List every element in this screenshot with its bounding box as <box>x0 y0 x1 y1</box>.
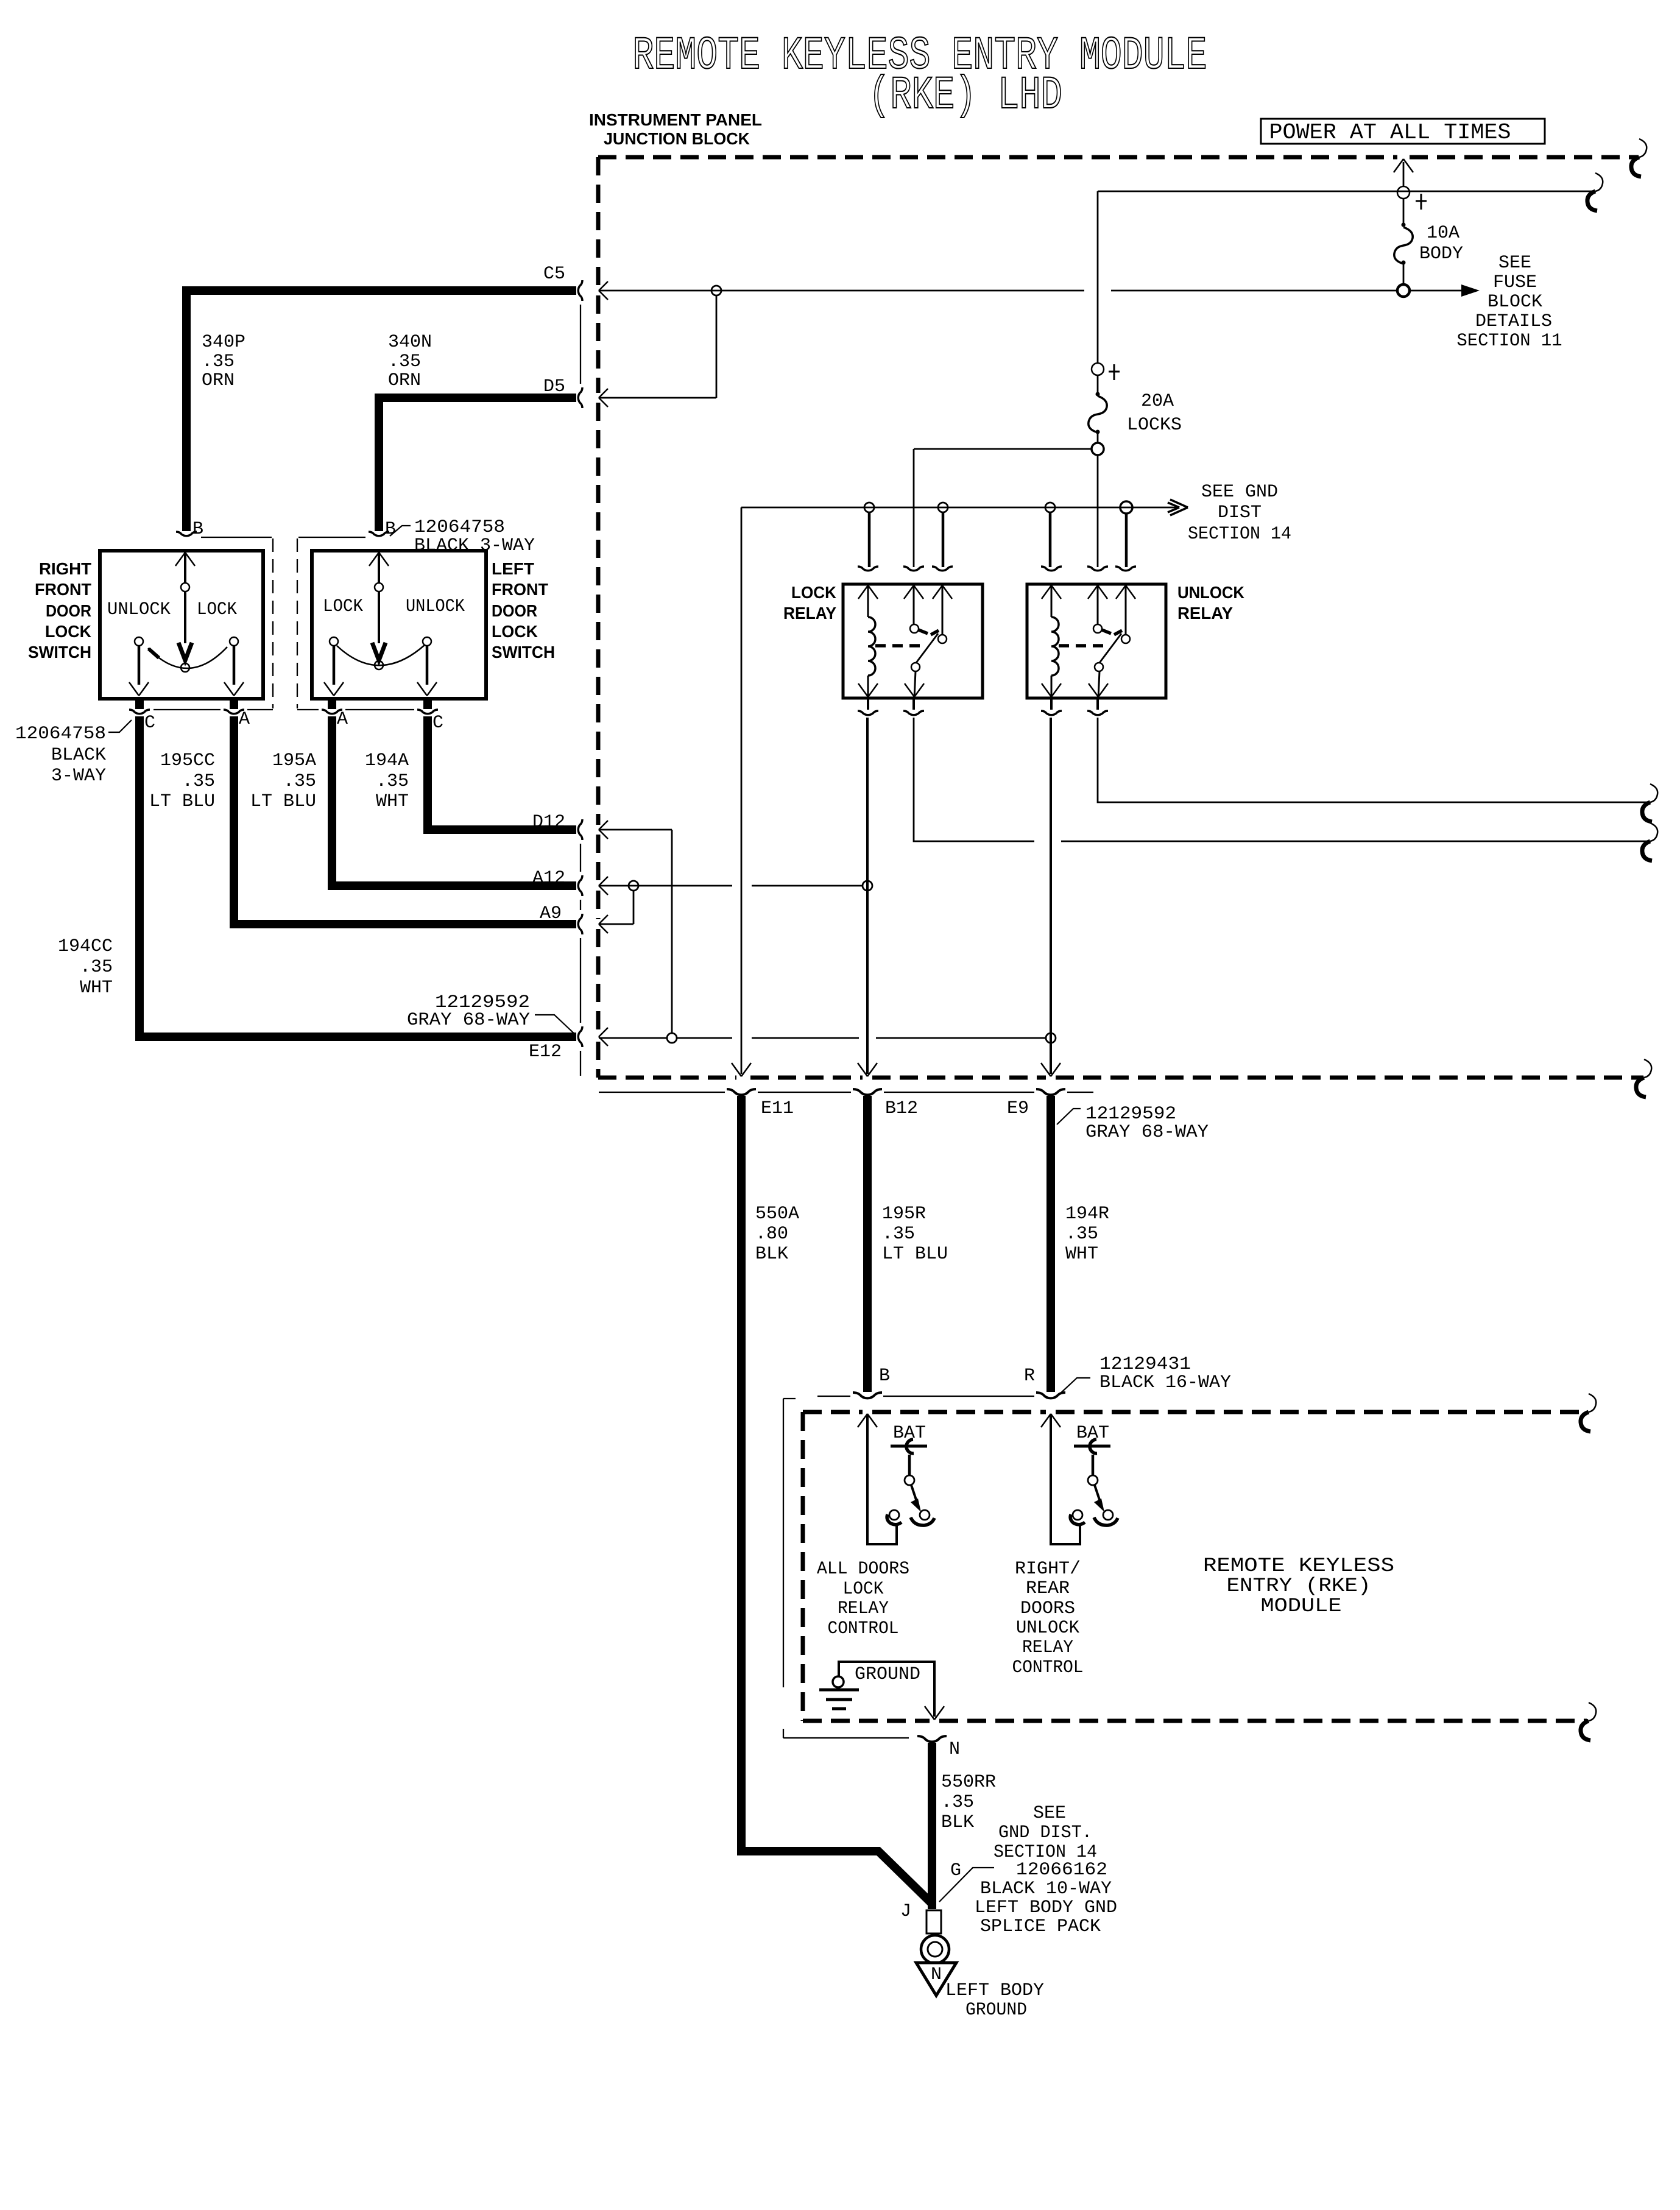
wire 550A .80 BLK <box>737 1096 746 1851</box>
relay socket cups (lock) <box>858 567 878 571</box>
label: INSTRUMENT PANEL JUNCTION BLOCK <box>589 110 762 148</box>
unlock relay internals <box>1051 584 1126 698</box>
svg-text:SPLICE PACK: SPLICE PACK <box>980 1916 1101 1937</box>
svg-text:B: B <box>879 1366 890 1386</box>
svg-text:E12: E12 <box>529 1042 562 1062</box>
svg-text:UNLOCK: UNLOCK <box>406 596 465 617</box>
relay K1 LOCK RELAY box <box>843 584 983 698</box>
68-way connector face lines (left border) <box>580 305 581 1076</box>
svg-text:SEE: SEE <box>1498 253 1531 274</box>
label: 12129592 GRAY 68-WAY (E12 connector) <box>407 992 575 1034</box>
svg-text:SWITCH: SWITCH <box>492 643 555 662</box>
svg-text:CONTROL: CONTROL <box>1012 1657 1084 1678</box>
svg-text:195A: 195A <box>272 750 316 771</box>
svg-text:LOCK: LOCK <box>492 622 538 641</box>
node: 10A fuse bottom on C5 line <box>1397 284 1410 297</box>
svg-text:SWITCH: SWITCH <box>28 643 91 662</box>
svg-text:C5: C5 <box>543 264 565 284</box>
svg-text:DOORS: DOORS <box>1020 1598 1075 1619</box>
arrow up at border (power feed) <box>1394 159 1413 172</box>
svg-text:20A: 20A <box>1141 391 1174 412</box>
left front door lock switch box <box>312 551 486 699</box>
svg-text:LEFT BODY: LEFT BODY <box>945 1980 1044 2001</box>
svg-text:A: A <box>239 709 250 730</box>
svg-text:R: R <box>1024 1366 1035 1386</box>
svg-text:DETAILS: DETAILS <box>1475 311 1552 332</box>
svg-text:(RKE) LHD: (RKE) LHD <box>869 69 1062 122</box>
node: A9/A12 junction <box>629 881 638 891</box>
label: SEE GND DIST. SECTION 14 <box>994 1803 1097 1863</box>
border arrows at bottom of junction block <box>732 1063 751 1076</box>
svg-text:FRONT: FRONT <box>35 580 91 599</box>
svg-text:195CC: 195CC <box>160 750 215 771</box>
svg-text:A9: A9 <box>540 903 562 924</box>
thin connector bracket (right switch) <box>154 537 273 710</box>
wire: riser from power bus to 20A fuse <box>1097 191 1099 364</box>
svg-text:B: B <box>385 519 396 540</box>
break squiggle (power bus) <box>1587 173 1603 211</box>
wire: D12 to E12 net riser <box>599 830 672 1033</box>
svg-text:194A: 194A <box>365 750 409 771</box>
right front door lock switch box <box>100 551 263 699</box>
svg-text:SEE GND: SEE GND <box>1201 482 1278 503</box>
svg-text:RIGHT: RIGHT <box>39 559 91 578</box>
svg-text:194R: 194R <box>1065 1204 1109 1224</box>
module internal ground net <box>839 1662 934 1717</box>
connector pin B (left switch) <box>369 532 389 536</box>
break squiggle (module top border) <box>1581 1394 1596 1432</box>
svg-text:GROUND: GROUND <box>855 1664 920 1685</box>
svg-text:.35: .35 <box>388 351 421 372</box>
node: 20A fuse top <box>1092 363 1104 375</box>
svg-text:DOOR: DOOR <box>46 601 91 620</box>
svg-text:N: N <box>949 1739 960 1760</box>
svg-text:GROUND: GROUND <box>965 2000 1027 2021</box>
lock relay internals <box>868 584 942 698</box>
svg-text:D5: D5 <box>543 376 565 397</box>
wire: A12 lock net line <box>599 885 863 887</box>
svg-text:N: N <box>931 1965 942 1985</box>
svg-text:INSTRUMENT PANEL: INSTRUMENT PANEL <box>589 110 762 129</box>
connector pin N (module 10-way) <box>917 1736 947 1742</box>
node: C5/D5 junction <box>711 286 721 295</box>
relay pin stubs below boxes <box>868 699 1098 710</box>
svg-text:LOCK: LOCK <box>791 583 836 602</box>
plus sign at 20A fuse <box>1109 364 1120 380</box>
svg-text:DIST: DIST <box>1218 503 1262 523</box>
relay socket cups (unlock) <box>1041 567 1062 571</box>
wire 194A .35 WHT <box>428 716 576 830</box>
node: 20A output junction (to relays) <box>1092 443 1104 455</box>
wire 194CC .35 WHT <box>139 716 576 1037</box>
label tick G / splice pack <box>900 1860 1117 1937</box>
svg-text:.35: .35 <box>376 771 409 792</box>
svg-text:BODY: BODY <box>1419 244 1463 264</box>
label: 12064758 BLACK 3-WAY (right switch connector) <box>15 720 132 786</box>
wire: lock relay coil to B12 (195R inside block) <box>866 718 869 1074</box>
svg-text:10A: 10A <box>1427 223 1459 244</box>
svg-text:SEE: SEE <box>1033 1803 1066 1824</box>
svg-text:ENTRY (RKE): ENTRY (RKE) <box>1227 1575 1371 1597</box>
label: REMOTE KEYLESS ENTRY (RKE) MODULE <box>1203 1555 1394 1617</box>
svg-text:.35: .35 <box>882 1224 915 1244</box>
svg-text:.35: .35 <box>202 351 235 372</box>
svg-text:BLOCK: BLOCK <box>1488 292 1542 312</box>
module switch 2: RIGHT/REAR DOORS UNLOCK RELAY CONTROL <box>1070 1423 1118 1525</box>
switch pin stubs below boxes <box>139 699 428 709</box>
svg-text:BLK: BLK <box>755 1244 788 1265</box>
svg-text:12129431: 12129431 <box>1099 1354 1191 1375</box>
svg-text:D12: D12 <box>532 812 565 833</box>
svg-text:RELAY: RELAY <box>1022 1637 1073 1658</box>
wire: B12 entry into module <box>867 1414 897 1544</box>
svg-text:12129592: 12129592 <box>1085 1104 1176 1124</box>
svg-text:SECTION 11: SECTION 11 <box>1457 331 1562 351</box>
svg-text:ORN: ORN <box>202 370 235 391</box>
label box: POWER AT ALL TIMES <box>1261 119 1545 145</box>
svg-text:GRAY 68-WAY: GRAY 68-WAY <box>407 1010 530 1031</box>
wire: power bus line y314 <box>1098 191 1594 192</box>
svg-text:12064758: 12064758 <box>15 724 106 744</box>
svg-text:FUSE: FUSE <box>1493 272 1537 293</box>
svg-text:LOCK: LOCK <box>197 599 237 620</box>
wire 195A .35 LT BLU <box>332 716 576 886</box>
relay socket cups below (lock) <box>858 711 878 715</box>
break squiggle (top border) <box>1631 139 1646 177</box>
wire 195R .35 LT BLU <box>863 1096 872 1392</box>
wire: unlock relay coil to E9 (194R inside block) <box>1050 718 1052 1074</box>
wire 194R .35 WHT <box>1046 1096 1055 1392</box>
svg-text:340N: 340N <box>388 332 432 353</box>
wire: E11 ground drop <box>741 507 743 1074</box>
svg-text:B12: B12 <box>885 1098 918 1119</box>
svg-text:RIGHT/: RIGHT/ <box>1015 1559 1081 1580</box>
svg-text:GRAY 68-WAY: GRAY 68-WAY <box>1085 1122 1209 1143</box>
wire: R/E9 entry into module <box>1051 1414 1080 1544</box>
title: REMOTE KEYLESS ENTRY MODULE (RKE) LHD <box>633 30 1207 122</box>
connector pin A (left switch) <box>322 710 342 714</box>
svg-text:SECTION 14: SECTION 14 <box>1188 524 1291 545</box>
break squiggle (lock output) <box>1642 823 1657 861</box>
connector D5 at border <box>578 387 582 408</box>
connector C5 at border <box>578 280 582 301</box>
connector E12 at border <box>578 1026 582 1047</box>
svg-text:LOCK: LOCK <box>323 596 363 617</box>
svg-text:GND DIST.: GND DIST. <box>998 1823 1092 1843</box>
svg-text:UNLOCK: UNLOCK <box>1177 583 1244 602</box>
svg-text:LT BLU: LT BLU <box>882 1244 948 1265</box>
wire: 550A run to splice pack <box>741 1848 933 1905</box>
svg-text:RELAY: RELAY <box>1177 604 1233 623</box>
svg-text:.35: .35 <box>80 957 113 978</box>
svg-text:.35: .35 <box>941 1792 974 1813</box>
svg-text:WHT: WHT <box>1065 1244 1098 1265</box>
fuse 20A LOCKS <box>1089 375 1107 443</box>
svg-text:550RR: 550RR <box>941 1772 996 1793</box>
svg-text:REAR: REAR <box>1026 1578 1070 1599</box>
node: ground terminal circle <box>833 1676 844 1687</box>
svg-text:340P: 340P <box>202 332 245 353</box>
plus sign at 10A fuse <box>1416 194 1427 210</box>
wires: gnd line drops to relay pins <box>869 512 1126 567</box>
svg-text:BLACK: BLACK <box>51 745 106 766</box>
svg-text:LT BLU: LT BLU <box>250 791 316 812</box>
label: 12129592 GRAY 68-WAY (module side) <box>1057 1104 1209 1143</box>
svg-text:.80: .80 <box>755 1224 788 1244</box>
fuse 10A BODY <box>1394 198 1413 285</box>
connector pin B (right switch) <box>176 532 197 536</box>
svg-text:WHT: WHT <box>376 791 409 812</box>
node: gnd junction (bold) <box>1120 501 1132 514</box>
svg-text:A: A <box>337 709 348 730</box>
ring terminal at splice pack <box>921 1910 949 1963</box>
connector pin R (module 16-way) <box>1036 1393 1065 1398</box>
ground N: LEFT BODY GROUND triangle <box>916 1963 1044 2021</box>
node: A12/B12 junction <box>863 881 872 891</box>
svg-text:ALL DOORS: ALL DOORS <box>817 1559 909 1580</box>
wire 550RR .35 BLK <box>928 1743 936 1909</box>
wire: 20A output to lock relay common feed <box>914 449 1098 567</box>
break squiggle (module bottom border) <box>1581 1703 1596 1740</box>
label: 12064758 BLACK 3-WAY (left switch connector) <box>390 517 535 556</box>
svg-text:UNLOCK: UNLOCK <box>107 599 171 620</box>
connector cups below junction block (68-way) <box>727 1089 756 1095</box>
label: 12129431 BLACK 16-WAY <box>1060 1354 1231 1394</box>
break squiggle (bottom border) <box>1636 1059 1651 1097</box>
thin connector bracket (left switch) <box>297 537 414 710</box>
connector pin A (right switch) <box>224 710 244 714</box>
wire: drop from C5 junction to D5 row <box>599 295 716 398</box>
wire: C5 feed line inside block <box>599 290 1474 292</box>
junction block dashed border <box>598 157 1643 1078</box>
svg-text:LOCK: LOCK <box>843 1579 884 1600</box>
right switch internals <box>139 552 234 685</box>
68-way connector face line <box>599 1092 1093 1093</box>
break squiggle (unlock output) <box>1642 784 1657 822</box>
module switch 1: ALL DOORS LOCK RELAY CONTROL <box>887 1423 934 1525</box>
node: gnd line taps <box>864 503 874 512</box>
wire: ground distribution line <box>741 507 1178 509</box>
svg-text:DOOR: DOOR <box>492 601 537 620</box>
svg-text:A12: A12 <box>532 868 565 889</box>
svg-text:REMOTE KEYLESS: REMOTE KEYLESS <box>1203 1555 1394 1577</box>
svg-text:3-WAY: 3-WAY <box>51 766 106 786</box>
node: D12/E12 junction <box>667 1033 677 1043</box>
connector A12 at border <box>578 875 582 896</box>
svg-text:MODULE: MODULE <box>1261 1595 1342 1617</box>
wire: lock relay output to door motors <box>914 718 1648 841</box>
svg-text:195R: 195R <box>882 1204 926 1224</box>
svg-text:E11: E11 <box>761 1098 794 1119</box>
svg-text:194CC: 194CC <box>58 936 113 957</box>
svg-text:UNLOCK: UNLOCK <box>1016 1618 1079 1639</box>
connector pin C (left switch) <box>417 710 438 714</box>
svg-text:BLACK 10-WAY: BLACK 10-WAY <box>980 1879 1112 1899</box>
svg-text:CONTROL: CONTROL <box>828 1619 899 1639</box>
svg-text:LOCKS: LOCKS <box>1127 415 1182 436</box>
svg-text:ORN: ORN <box>388 370 421 391</box>
RKE module dashed border <box>803 1412 1587 1721</box>
16-way connector face line and bracket <box>783 1396 1034 1738</box>
connector D12 at border <box>578 819 582 840</box>
node: E12/E9 junction <box>1046 1033 1056 1043</box>
svg-text:.35: .35 <box>283 771 316 792</box>
svg-text:12064758: 12064758 <box>414 517 505 538</box>
svg-text:C: C <box>432 713 443 733</box>
svg-text:G: G <box>950 1860 961 1881</box>
svg-text:WHT: WHT <box>80 978 113 998</box>
svg-text:.35: .35 <box>1065 1224 1098 1244</box>
svg-text:JUNCTION BLOCK: JUNCTION BLOCK <box>604 129 750 148</box>
wire: A9 riser to A12 <box>599 891 634 924</box>
svg-text:C: C <box>144 713 155 733</box>
wire 340P .35 ORN <box>186 291 576 531</box>
connector pin C (right switch) <box>129 710 150 714</box>
node: power bus / 10A fuse top <box>1397 186 1410 199</box>
arrow to SEE FUSE BLOCK DETAILS <box>1461 284 1480 297</box>
svg-text:BLACK 16-WAY: BLACK 16-WAY <box>1099 1372 1231 1393</box>
svg-text:12066162: 12066162 <box>1016 1860 1107 1880</box>
svg-text:FRONT: FRONT <box>492 580 548 599</box>
wire: unlock relay output to door motors <box>1098 718 1648 802</box>
relay socket cups below (unlock) <box>1041 711 1062 715</box>
wire: E12 unlock net line <box>599 1037 1046 1039</box>
svg-text:550A: 550A <box>755 1204 799 1224</box>
svg-text:POWER AT ALL TIMES: POWER AT ALL TIMES <box>1269 120 1511 145</box>
svg-text:LT BLU: LT BLU <box>149 791 215 812</box>
connector pin B (module 16-way) <box>853 1393 882 1398</box>
connector A9 at border <box>578 914 582 934</box>
svg-text:LEFT: LEFT <box>492 559 534 578</box>
arrow to SEE GND DIST <box>1168 500 1188 515</box>
svg-text:LEFT BODY GND: LEFT BODY GND <box>975 1898 1117 1918</box>
svg-text:J: J <box>900 1901 911 1922</box>
wire: battery feed entering block at POWER AT ALL TIMES <box>1403 162 1405 187</box>
svg-text:BLACK 3-WAY: BLACK 3-WAY <box>414 535 535 556</box>
svg-text:RELAY: RELAY <box>783 604 836 623</box>
wire 340N .35 ORN <box>379 398 576 531</box>
svg-text:E9: E9 <box>1007 1098 1029 1119</box>
wire 195CC .35 LT BLU <box>234 716 576 924</box>
left switch internals <box>334 552 427 685</box>
svg-text:LOCK: LOCK <box>45 622 91 641</box>
ground symbol <box>819 1690 859 1709</box>
relay K2 UNLOCK RELAY box <box>1027 584 1166 698</box>
svg-text:RELAY: RELAY <box>838 1598 889 1619</box>
svg-text:BLK: BLK <box>941 1812 974 1833</box>
svg-text:.35: .35 <box>182 771 215 792</box>
